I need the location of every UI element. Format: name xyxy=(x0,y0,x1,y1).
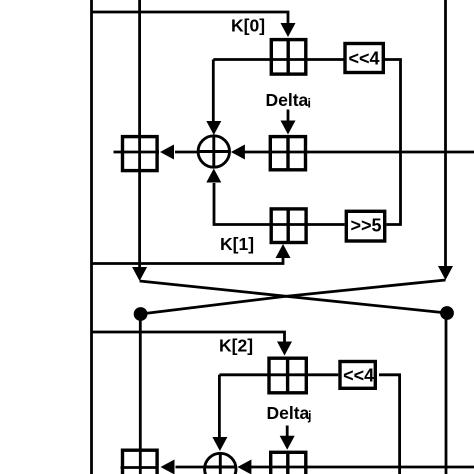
wire: outer-right vertical (round 1) xyxy=(444,0,447,267)
wire: Delta_i feed stub xyxy=(287,110,290,123)
junction dot (left swap node) xyxy=(134,307,148,321)
wire: K[2] feed from left bus xyxy=(92,332,285,342)
arrowhead into XOR U2 right xyxy=(237,460,251,474)
wire: inner-left vertical (lower half, round 2) xyxy=(139,314,142,474)
arrowhead into adder A7 right xyxy=(161,460,175,474)
wire: Delta_j feed stub xyxy=(286,426,289,438)
shift box S1 (<<4) xyxy=(345,44,383,73)
wire: right-half horizontal into adder A6 xyxy=(251,466,474,469)
adder A2 (Delta_i add box) xyxy=(270,136,305,171)
arrowhead: right-half output down (end of round 1) xyxy=(438,266,453,280)
adder A1 (K[0] add box) xyxy=(271,39,306,75)
arrowhead into XOR U1 right xyxy=(231,145,245,160)
adder A3 (left-half add box, round 1) xyxy=(123,137,158,171)
svg-text:>>5: >>5 xyxy=(350,216,381,236)
wire: swap diagonal right-to-left xyxy=(141,280,446,314)
svg-text:<<4: <<4 xyxy=(348,49,379,69)
svg-text:Delta: Delta xyxy=(267,403,310,423)
wire: A1 output down to XOR U1 xyxy=(212,60,215,123)
svg-text:K[1]: K[1] xyxy=(220,234,254,254)
svg-text:i: i xyxy=(308,97,311,111)
arrowhead into adder A3 right xyxy=(160,145,174,160)
XOR gate U2 (partially cropped) xyxy=(204,452,238,474)
arrowhead into XOR U2 top xyxy=(212,437,227,451)
wire: outer-left vertical bus xyxy=(90,0,93,474)
adder A6 (Delta_j add box, partially cropped) xyxy=(271,452,306,474)
adder A4 (K[1] add box) xyxy=(271,209,306,243)
wire: K[1] feed from left bus xyxy=(92,258,284,264)
svg-text:K[0]: K[0] xyxy=(231,16,265,36)
wire: K[0] feed from left bus xyxy=(92,12,289,24)
arrowhead into XOR U1 top xyxy=(206,121,221,135)
wire: K-row horizontal through adder A5 xyxy=(219,373,338,376)
svg-text:K[2]: K[2] xyxy=(219,336,253,356)
arrowhead into adder A1 xyxy=(281,23,296,37)
XOR gate U1 xyxy=(197,135,231,169)
arrowhead into adder A2 xyxy=(281,121,296,135)
adder A5 (K[2] add box) xyxy=(269,358,306,394)
arrowhead: left-half output down (end of round 1) xyxy=(132,267,147,281)
svg-text:<<4: <<4 xyxy=(343,366,374,386)
arrowhead into adder A5 top xyxy=(277,342,292,356)
wire: XOR U2 output toward adder A7 xyxy=(176,466,204,469)
shift box S2 (>>5) xyxy=(346,211,384,241)
wire: S2 output to adder A4 xyxy=(308,223,345,226)
wire: branch vertical connecting S1 and S2 xyxy=(385,60,401,225)
wire: outer-right vertical (lower half, round 2) xyxy=(445,313,448,474)
wire: XOR U1 output toward adder A3 xyxy=(175,151,197,154)
adder A7 (left-half add box, round 2, partially cropped) xyxy=(123,450,158,474)
wire: inner-left vertical (upper half, round 1) xyxy=(138,0,141,268)
shift box S3 (<<4, round 2) xyxy=(340,362,375,389)
arrowhead into XOR U1 bottom xyxy=(206,169,221,183)
wire: A4 output left then up to XOR U1 xyxy=(214,183,308,225)
junction dot (right swap node) xyxy=(440,306,454,320)
svg-text:Delta: Delta xyxy=(266,90,309,110)
wire: A5 output down to XOR U2 xyxy=(218,375,221,438)
svg-text:j: j xyxy=(307,409,311,423)
arrowhead into adder A4 bottom xyxy=(276,244,291,258)
wire: branch vertical from S3 down (round 2) xyxy=(379,375,400,474)
wire: K-row horizontal through adder A1 xyxy=(213,58,343,61)
wire: swap diagonal left-to-right xyxy=(140,281,447,313)
arrowhead into adder A6 top xyxy=(280,436,295,450)
wire: right-half horizontal into adder A2 xyxy=(245,151,474,154)
